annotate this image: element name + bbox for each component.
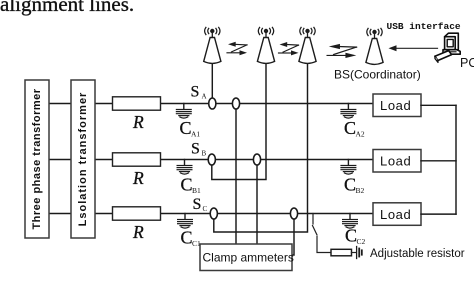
- capacitor CA1: [176, 104, 200, 139]
- wireless link arrow 1: [227, 42, 247, 55]
- label SC: [193, 196, 208, 213]
- load A to bus wire: [421, 104, 456, 106]
- wire from SA2 down to clamp ammeters: [235, 109, 237, 244]
- svg-text:B2: B2: [356, 186, 365, 195]
- wireless link arrow 2: [279, 42, 299, 55]
- svg-text:B1: B1: [192, 186, 201, 195]
- resistor R (phase C): [113, 207, 161, 242]
- isolation transformer T2: [71, 80, 95, 238]
- antenna 1: [204, 27, 221, 63]
- capacitor CC1: [178, 214, 201, 249]
- svg-text:C: C: [344, 175, 356, 195]
- svg-text:Load: Load: [380, 207, 411, 222]
- capacitor CC2: [343, 214, 366, 247]
- switch SA node 1: [209, 98, 216, 109]
- svg-text:USB interface: USB interface: [387, 21, 461, 32]
- svg-text:C: C: [345, 226, 357, 246]
- svg-text:S: S: [191, 84, 200, 101]
- svg-text:BS(Coordinator): BS(Coordinator): [334, 68, 421, 82]
- svg-text:Adjustable resistor: Adjustable resistor: [370, 248, 465, 260]
- svg-text:R: R: [132, 168, 144, 188]
- wireless link arrow 3: [327, 44, 356, 58]
- antenna 3 stem wire: [214, 64, 308, 232]
- svg-text:Three phase transformer: Three phase transformer: [31, 88, 43, 229]
- load box A: [373, 94, 421, 117]
- phase B wire: [49, 159, 373, 161]
- right bus wire: [455, 105, 457, 214]
- svg-text:Clamp ammeters: Clamp ammeters: [203, 251, 294, 265]
- load box C: [373, 203, 421, 226]
- svg-text:Load: Load: [380, 154, 411, 169]
- svg-text:C: C: [203, 205, 208, 213]
- svg-text:A1: A1: [191, 130, 200, 139]
- capacitor CB1: [177, 160, 201, 196]
- svg-text:Load: Load: [380, 98, 411, 113]
- svg-text:S: S: [191, 140, 200, 157]
- switch to adjustable resistor branch: [313, 214, 332, 253]
- switch SB node 1: [208, 154, 215, 165]
- wire from SB2 down to clamp ammeters: [256, 165, 258, 244]
- svg-text:C: C: [181, 175, 193, 195]
- svg-text:C2: C2: [357, 237, 366, 246]
- svg-text:R: R: [132, 222, 144, 242]
- svg-text:B: B: [202, 150, 207, 158]
- arrow PC to BS: [389, 45, 438, 51]
- switch SC node 1: [210, 208, 217, 219]
- svg-text:C: C: [181, 228, 193, 248]
- switch SC node 2: [290, 208, 297, 219]
- switch SB node 2: [253, 154, 260, 165]
- capacitor CB2: [341, 160, 365, 196]
- PC icon: [435, 33, 460, 62]
- load B to bus wire: [421, 160, 456, 162]
- switch SA node 2: [232, 98, 239, 109]
- capacitor CA2: [341, 104, 365, 139]
- svg-text:Lsolation transformer: Lsolation transformer: [77, 92, 89, 227]
- adjustable resistor box: [331, 249, 352, 256]
- phase A wire: [49, 103, 373, 105]
- three phase transformer T1: [25, 80, 49, 238]
- antenna BS coordinator: [366, 28, 383, 64]
- wire from SC2 down to clamp ammeters: [292, 219, 295, 255]
- resistor R (phase B): [113, 153, 161, 188]
- svg-text:A: A: [202, 93, 207, 101]
- label SA: [191, 84, 207, 101]
- antenna 1 stem wire: [211, 64, 213, 98]
- load box B: [373, 150, 421, 173]
- antenna 2 stem wire: [212, 64, 266, 180]
- label SB: [191, 140, 207, 157]
- resistor R (phase A): [113, 97, 161, 132]
- load C to bus wire: [421, 213, 456, 215]
- svg-text:R: R: [132, 112, 144, 132]
- svg-text:PC: PC: [460, 56, 474, 70]
- svg-text:S: S: [193, 196, 202, 213]
- phase C wire: [49, 213, 373, 215]
- svg-text:alignment lines.: alignment lines.: [0, 0, 134, 16]
- clamp ammeters box: [200, 244, 294, 271]
- wire resistor to ground: [352, 252, 357, 254]
- antenna 2: [257, 27, 274, 63]
- svg-text:C: C: [344, 118, 356, 138]
- antenna 3: [299, 27, 316, 63]
- svg-text:C: C: [180, 118, 192, 138]
- svg-text:A2: A2: [356, 130, 365, 139]
- sideways ground symbol: [357, 247, 362, 259]
